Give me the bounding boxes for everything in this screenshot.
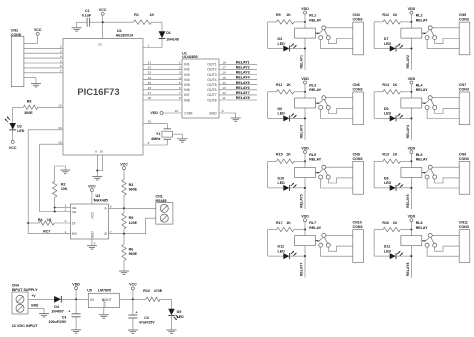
svg-text:RELAY6: RELAY6: [406, 194, 410, 208]
ground (MAX485): [87, 246, 97, 249]
svg-text:VCC: VCC: [9, 146, 17, 150]
relay RL1 coil: [295, 14, 322, 39]
svg-text:28: 28: [148, 96, 152, 100]
svg-text:RO: RO: [72, 232, 77, 236]
svg-text:9: 9: [148, 141, 150, 145]
svg-text:LED: LED: [177, 315, 185, 319]
wire CN2 pin1 to VCC: [24, 35, 38, 43]
svg-text:VDD: VDD: [301, 215, 309, 219]
node RL4 coil top junction: [410, 91, 412, 93]
svg-text:RC7: RC7: [43, 229, 50, 233]
relay RL7 armature arrow: [315, 238, 322, 242]
connector CN3 CON3: [353, 13, 364, 55]
svg-text:RELAY1: RELAY1: [236, 60, 250, 64]
svg-text:RELAY5: RELAY5: [236, 81, 250, 85]
wire RL3 NO contact to CN6 pin 2: [328, 108, 353, 113]
svg-text:GND: GND: [209, 111, 217, 115]
ground (CN4): [39, 314, 49, 317]
svg-text:RELAY4: RELAY4: [236, 76, 250, 80]
svg-text:LED: LED: [384, 181, 392, 185]
svg-text:22: 22: [148, 66, 152, 70]
relay RL4 armature arrow: [422, 100, 429, 104]
svg-text:15: 15: [58, 103, 62, 107]
svg-text:R17: R17: [276, 221, 283, 225]
relay RL2 armature arrow: [422, 30, 429, 34]
wire PIC pin16 to R4/RO node: [28, 126, 70, 234]
svg-text:DE: DE: [72, 210, 76, 214]
svg-text:CON3: CON3: [353, 87, 363, 91]
svg-text:LED: LED: [384, 42, 392, 46]
svg-text:10K: 10K: [61, 187, 68, 191]
svg-text:47uF/25V: 47uF/25V: [139, 320, 155, 324]
capacitor C3 100uF/25V: [49, 299, 81, 329]
resistor R10 470E: [143, 289, 171, 302]
svg-text:D5: D5: [177, 310, 182, 314]
svg-text:+: +: [68, 309, 70, 313]
power VDD symbol (RL3 cell): [301, 77, 309, 84]
wire LED branch left rail (D10): [268, 161, 284, 188]
led D11: [384, 245, 412, 260]
relay RL8 armature arrow: [422, 238, 429, 242]
wire RL2 NO contact to CN5 pin 2: [435, 39, 460, 44]
svg-text:4: 4: [60, 54, 62, 58]
svg-text:4: 4: [65, 219, 67, 223]
wire RL4 NC contact to CN7 pin 3: [427, 110, 459, 119]
node D6 cathode junction: [304, 117, 306, 119]
svg-text:OUT3: OUT3: [207, 73, 216, 77]
wire RL3 common contact to CN6 pin 1: [326, 97, 353, 99]
svg-text:1K: 1K: [47, 218, 52, 222]
svg-text:R15: R15: [276, 153, 283, 157]
svg-text:OUT8: OUT8: [207, 98, 216, 102]
svg-text:IN8: IN8: [184, 98, 190, 102]
wire RL3 NC contact to CN6 pin 3: [321, 110, 353, 119]
svg-text:7: 7: [110, 230, 112, 234]
power VCC symbol (MAX485 pin 8): [88, 184, 96, 191]
svg-text:D8: D8: [384, 176, 389, 180]
svg-text:1: 1: [148, 44, 150, 48]
ground (U5): [99, 315, 109, 318]
svg-text:9: 9: [222, 109, 224, 113]
svg-text:8: 8: [93, 198, 95, 202]
wire VCC rail down to PIC VDD pin 20: [102, 15, 104, 38]
svg-text:CN4: CN4: [12, 284, 19, 288]
svg-text:R14: R14: [382, 83, 389, 87]
svg-text:RELAY8: RELAY8: [406, 263, 410, 277]
svg-text:3: 3: [60, 50, 62, 54]
svg-text:IN2: IN2: [184, 68, 190, 72]
wire PIC pins 21-28 to ULN2803 IN1-IN8: [143, 61, 182, 101]
svg-text:2: 2: [65, 208, 67, 212]
power VDD symbol (RL4 cell): [408, 77, 416, 84]
svg-text:RELAY6: RELAY6: [236, 86, 250, 90]
svg-text:15: 15: [222, 76, 226, 80]
node D7 cathode junction: [410, 47, 412, 49]
svg-text:RELAY8: RELAY8: [236, 96, 250, 100]
svg-text:LED: LED: [384, 249, 392, 253]
wire RL7 NO contact to CN10 pin 2: [328, 246, 353, 251]
svg-text:+: +: [136, 311, 138, 315]
svg-text:960E: 960E: [129, 252, 138, 256]
svg-text:CN6: CN6: [353, 83, 360, 87]
wire LED branch left rail (D9): [374, 92, 390, 119]
svg-text:C3: C3: [62, 316, 67, 320]
svg-text:CON3: CON3: [353, 225, 363, 229]
connector CN4 INPUT SUPPLY: [12, 284, 38, 314]
regulator U5 LM7805: [87, 289, 119, 308]
svg-text:RELAY: RELAY: [416, 158, 428, 162]
wire VDD rail (RL2 cell): [410, 14, 412, 70]
svg-text:7: 7: [179, 91, 181, 95]
wire VDD to ULN COM pin 10: [163, 109, 182, 113]
svg-text:RELAY2: RELAY2: [236, 66, 250, 70]
svg-text:R5: R5: [129, 216, 134, 220]
node RL5 coil top junction: [304, 160, 306, 162]
svg-text:CN2: CN2: [11, 28, 18, 32]
connector CN9 CON3: [459, 153, 470, 195]
svg-text:Y1: Y1: [156, 132, 160, 136]
svg-text:7: 7: [60, 69, 62, 73]
microcontroller U2 PIC16F73: [63, 29, 143, 155]
svg-text:14: 14: [222, 81, 226, 85]
svg-text:RELAY3: RELAY3: [236, 71, 250, 75]
svg-text:VCC: VCC: [120, 162, 128, 166]
svg-text:VDD: VDD: [408, 215, 416, 219]
svg-text:1: 1: [65, 230, 67, 234]
svg-text:RELAY1: RELAY1: [300, 55, 304, 69]
svg-text:LED: LED: [278, 112, 286, 116]
svg-text:100uF/25V: 100uF/25V: [49, 320, 67, 324]
svg-text:RELAY: RELAY: [309, 226, 321, 230]
ground (D5): [167, 330, 177, 333]
svg-text:VCC: VCC: [99, 8, 107, 12]
wire VDD rail (RL5 cell): [304, 154, 306, 210]
wire R2 to MAX485 RE pin 3: [55, 204, 71, 208]
wire MAX485 A pin 6 to CN1: [109, 204, 156, 208]
led D3: [278, 37, 306, 52]
svg-text:LED: LED: [278, 181, 286, 185]
svg-text:120E: 120E: [129, 221, 138, 225]
net label RELAY7: [300, 263, 304, 277]
node RL2 coil top junction: [410, 21, 412, 23]
wire LED branch left rail (D6): [268, 92, 284, 119]
wire VDD rail (RL8 cell): [410, 222, 412, 278]
wire ULN GND pin 9 to ground: [219, 109, 236, 118]
diode D1 1N4148: [159, 22, 179, 47]
svg-text:5: 5: [179, 81, 181, 85]
wire CN2 to PIC pins 2-7 (port A): [24, 45, 63, 74]
svg-text:RELAY2: RELAY2: [406, 55, 410, 69]
svg-text:1: 1: [179, 61, 181, 65]
wire ULN2803 OUT1-OUT8 with net labels RELAY1-RELAY8: [219, 60, 257, 100]
svg-text:CN8: CN8: [353, 153, 360, 157]
ground (R6): [119, 271, 129, 274]
node VSS junction: [96, 169, 98, 171]
svg-text:VCC: VCC: [91, 211, 95, 218]
svg-text:OUT7: OUT7: [207, 93, 216, 97]
ground (PIC VSS): [92, 171, 102, 181]
svg-text:1N4148: 1N4148: [166, 38, 179, 42]
text 12 VDC INPUT: [12, 324, 38, 328]
wire RL8 NO contact to CN11 pin 2: [435, 246, 460, 251]
svg-text:1K: 1K: [393, 221, 398, 225]
svg-text:OUT5: OUT5: [207, 83, 216, 87]
wire crystal case to ground: [173, 134, 183, 138]
svg-text:OUT6: OUT6: [207, 88, 216, 92]
led D5: [168, 299, 184, 329]
wire VDD rail (RL1 cell): [304, 14, 306, 70]
resistor R17 1K: [268, 221, 305, 232]
ground (C3): [71, 330, 81, 333]
svg-text:1K: 1K: [393, 13, 398, 17]
svg-text:19: 19: [100, 150, 104, 154]
svg-text:MAX485: MAX485: [94, 199, 108, 203]
wire RL1 common contact to CN3 pin 1: [326, 27, 353, 29]
relay RL6 coil: [401, 153, 428, 178]
led D10: [278, 176, 306, 191]
capacitor C1 0.1uF: [77, 9, 102, 27]
svg-text:R6: R6: [129, 247, 134, 251]
svg-text:10: 10: [175, 109, 179, 113]
connector CN7 CON3: [459, 83, 470, 125]
svg-text:CON3: CON3: [459, 157, 469, 161]
svg-text:COM: COM: [184, 111, 192, 115]
svg-text:U3: U3: [96, 194, 101, 198]
svg-text:12 VDC INPUT: 12 VDC INPUT: [12, 324, 38, 328]
wire RL5 NC contact to CN8 pin 3: [321, 179, 353, 188]
relay RL5 coil: [295, 153, 322, 178]
svg-text:GND: GND: [31, 304, 39, 308]
svg-text:RELAY: RELAY: [309, 18, 321, 22]
svg-text:12: 12: [222, 91, 226, 95]
wire VDD junction: [75, 290, 77, 300]
svg-text:26: 26: [148, 86, 152, 90]
svg-text:IN1: IN1: [184, 63, 190, 67]
node VCC/C1 junction: [102, 21, 104, 23]
svg-text:21: 21: [148, 61, 152, 65]
svg-text:CN10: CN10: [353, 221, 362, 225]
net label RELAY1: [300, 55, 304, 69]
ground (C4): [128, 330, 138, 333]
node RL3 coil top junction: [304, 91, 306, 93]
svg-text:U2: U2: [117, 29, 122, 33]
wire U5 GND to ground: [103, 308, 105, 315]
svg-text:27: 27: [148, 91, 152, 95]
svg-text:C4: C4: [144, 316, 149, 320]
svg-text:RL2: RL2: [416, 14, 423, 18]
svg-text:RELAY4: RELAY4: [406, 125, 410, 139]
svg-text:18: 18: [58, 140, 62, 144]
svg-text:CN5: CN5: [459, 13, 466, 17]
svg-text:R13: R13: [382, 153, 389, 157]
relay RL6 contacts: [425, 165, 437, 179]
resistor R16 1K: [374, 221, 411, 232]
svg-text:1N4007: 1N4007: [51, 310, 64, 314]
led D12: [278, 245, 306, 260]
wire CN4 +V to D4: [28, 294, 54, 299]
svg-text:RL6: RL6: [416, 153, 423, 157]
ground (CN2): [31, 84, 41, 87]
led D2: [5, 107, 25, 133]
node D9 cathode junction: [410, 117, 412, 119]
svg-text:8: 8: [179, 96, 181, 100]
svg-text:R2: R2: [61, 183, 66, 187]
wire VDD rail (RL7 cell): [304, 222, 306, 278]
svg-text:IN4: IN4: [184, 78, 190, 82]
svg-text:R3: R3: [129, 183, 134, 187]
net label RELAY5: [300, 194, 304, 208]
power VCC symbol (5V rail): [129, 283, 137, 290]
svg-text:D9: D9: [384, 107, 389, 111]
svg-text:2: 2: [60, 45, 62, 49]
wire RL4 NO contact to CN7 pin 2: [435, 108, 460, 113]
power VDD symbol (raw 12V): [72, 282, 80, 289]
svg-text:LED: LED: [17, 129, 25, 133]
wire crystal to PIC pin9: [143, 139, 167, 145]
svg-text:470E: 470E: [154, 289, 163, 293]
svg-text:4: 4: [179, 76, 181, 80]
svg-text:1K: 1K: [150, 13, 155, 17]
svg-text:VDD: VDD: [408, 77, 416, 81]
wire VDD rail (RL6 cell): [410, 154, 412, 210]
wire RL5 common contact to CN8 pin 1: [326, 166, 353, 168]
svg-text:IN6: IN6: [184, 88, 190, 92]
svg-text:D6: D6: [278, 107, 283, 111]
svg-text:6: 6: [60, 64, 62, 68]
wire PIC pin10 to crystal: [143, 120, 167, 129]
svg-text:RELAY: RELAY: [416, 88, 428, 92]
wire RL2 common contact to CN5 pin 1: [432, 27, 459, 29]
svg-text:2: 2: [179, 66, 181, 70]
relay RL7 contacts: [319, 233, 331, 247]
node D11 cathode junction: [410, 255, 412, 257]
wire RL2 NC contact to CN5 pin 3: [427, 40, 459, 49]
svg-text:1K: 1K: [286, 221, 291, 225]
net label RELAY6: [406, 194, 410, 208]
svg-text:GND: GND: [103, 300, 107, 308]
relay RL6 armature arrow: [422, 170, 429, 174]
wire RL6 common contact to CN9 pin 1: [432, 166, 459, 168]
svg-text:B: B: [104, 232, 106, 236]
resistor R11 1K: [268, 83, 305, 94]
svg-text:RS485: RS485: [156, 199, 167, 203]
svg-text:AE28C014: AE28C014: [116, 34, 134, 38]
connector CN2 CON8: [11, 28, 24, 86]
svg-text:RELAY: RELAY: [309, 158, 321, 162]
svg-text:RL3: RL3: [309, 83, 316, 87]
power VDD symbol (RL7 cell): [301, 215, 309, 222]
led D7: [384, 37, 412, 52]
ground (crystal): [177, 139, 187, 142]
svg-text:11: 11: [222, 96, 225, 100]
relay RL8 contacts: [425, 233, 437, 247]
led D6: [278, 107, 306, 122]
node D8 cathode junction: [410, 187, 412, 189]
svg-text:RL7: RL7: [309, 221, 316, 225]
svg-text:CN9: CN9: [459, 153, 466, 157]
svg-text:5: 5: [94, 241, 96, 245]
svg-text:D4: D4: [54, 305, 59, 309]
relay RL3 coil: [295, 83, 322, 108]
wire VDD rail (RL4 cell): [410, 84, 412, 140]
wire LED branch left rail (D3): [268, 22, 284, 49]
wire RL8 NC contact to CN11 pin 3: [427, 247, 459, 256]
wire U5 OUT to R10: [119, 298, 146, 300]
svg-text:CN7: CN7: [459, 83, 466, 87]
svg-text:OUT2: OUT2: [207, 68, 216, 72]
svg-text:R10: R10: [143, 289, 150, 293]
svg-text:OUT4: OUT4: [207, 78, 216, 82]
svg-text:VDD: VDD: [150, 111, 158, 115]
svg-text:ULN2803: ULN2803: [182, 55, 197, 59]
svg-text:VDD: VDD: [408, 7, 416, 11]
svg-text:LED: LED: [278, 42, 286, 46]
power VDD symbol (RL6 cell): [408, 146, 416, 153]
ground (C1): [72, 28, 82, 31]
wire LED branch left rail (D11): [374, 230, 390, 257]
svg-text:R9: R9: [276, 13, 281, 17]
crystal Y1 4MHz: [151, 129, 172, 141]
wire PIC VSS pins 8,19 to ground: [97, 155, 102, 171]
svg-text:CON3: CON3: [459, 18, 469, 22]
svg-text:VDD: VDD: [301, 77, 309, 81]
svg-text:R12: R12: [382, 13, 389, 17]
relay RL7 coil: [295, 221, 322, 246]
svg-text:D12: D12: [278, 245, 285, 249]
resistor R5 120E: [122, 208, 138, 233]
power VDD symbol (ULN COM): [150, 111, 163, 115]
resistor R2 10K: [53, 166, 68, 212]
node D12 cathode junction: [304, 255, 306, 257]
node D10 cathode junction: [304, 187, 306, 189]
relay RL2 coil: [401, 14, 428, 39]
resistor R13 1K: [374, 153, 411, 164]
svg-text:RELAY: RELAY: [309, 88, 321, 92]
svg-text:CN3: CN3: [353, 13, 360, 17]
svg-text:6: 6: [110, 204, 112, 208]
svg-text:LM7805: LM7805: [98, 289, 111, 293]
svg-text:VCC: VCC: [88, 184, 96, 188]
svg-text:RELAY: RELAY: [416, 18, 428, 22]
resistor R9 1K: [268, 13, 305, 24]
svg-text:23: 23: [148, 71, 152, 75]
power VCC symbol (CN2 pin 1): [34, 28, 42, 35]
svg-text:960E: 960E: [129, 188, 138, 192]
wire RL5 NO contact to CN8 pin 2: [328, 178, 353, 183]
svg-text:IN3: IN3: [184, 73, 190, 77]
power VDD symbol (RL5 cell): [301, 146, 309, 153]
svg-text:20: 20: [98, 42, 102, 46]
svg-text:1K: 1K: [286, 13, 291, 17]
resistor R15 1K: [268, 153, 305, 164]
svg-text:CN1: CN1: [156, 194, 163, 198]
node RL6 coil top junction: [410, 160, 412, 162]
wire CN4 GND to ground: [28, 304, 44, 314]
wire D1 to PIC MCLR pin 1: [143, 44, 162, 48]
wire RL6 NC contact to CN9 pin 3: [427, 179, 459, 188]
svg-text:RELAY: RELAY: [416, 226, 428, 230]
wire RL1 NO contact to CN3 pin 2: [328, 39, 353, 44]
svg-text:R11: R11: [276, 83, 282, 87]
svg-text:RL8: RL8: [416, 221, 423, 225]
svg-text:VDD: VDD: [408, 146, 416, 150]
wire RL6 NO contact to CN9 pin 2: [435, 178, 460, 183]
net label RELAY3: [300, 125, 304, 139]
capacitor C4 47uF/25V: [128, 299, 155, 329]
node RE/DE tie junctions: [54, 206, 56, 212]
relay RL5 contacts: [319, 165, 331, 179]
resistor R4 1K: [28, 218, 70, 225]
